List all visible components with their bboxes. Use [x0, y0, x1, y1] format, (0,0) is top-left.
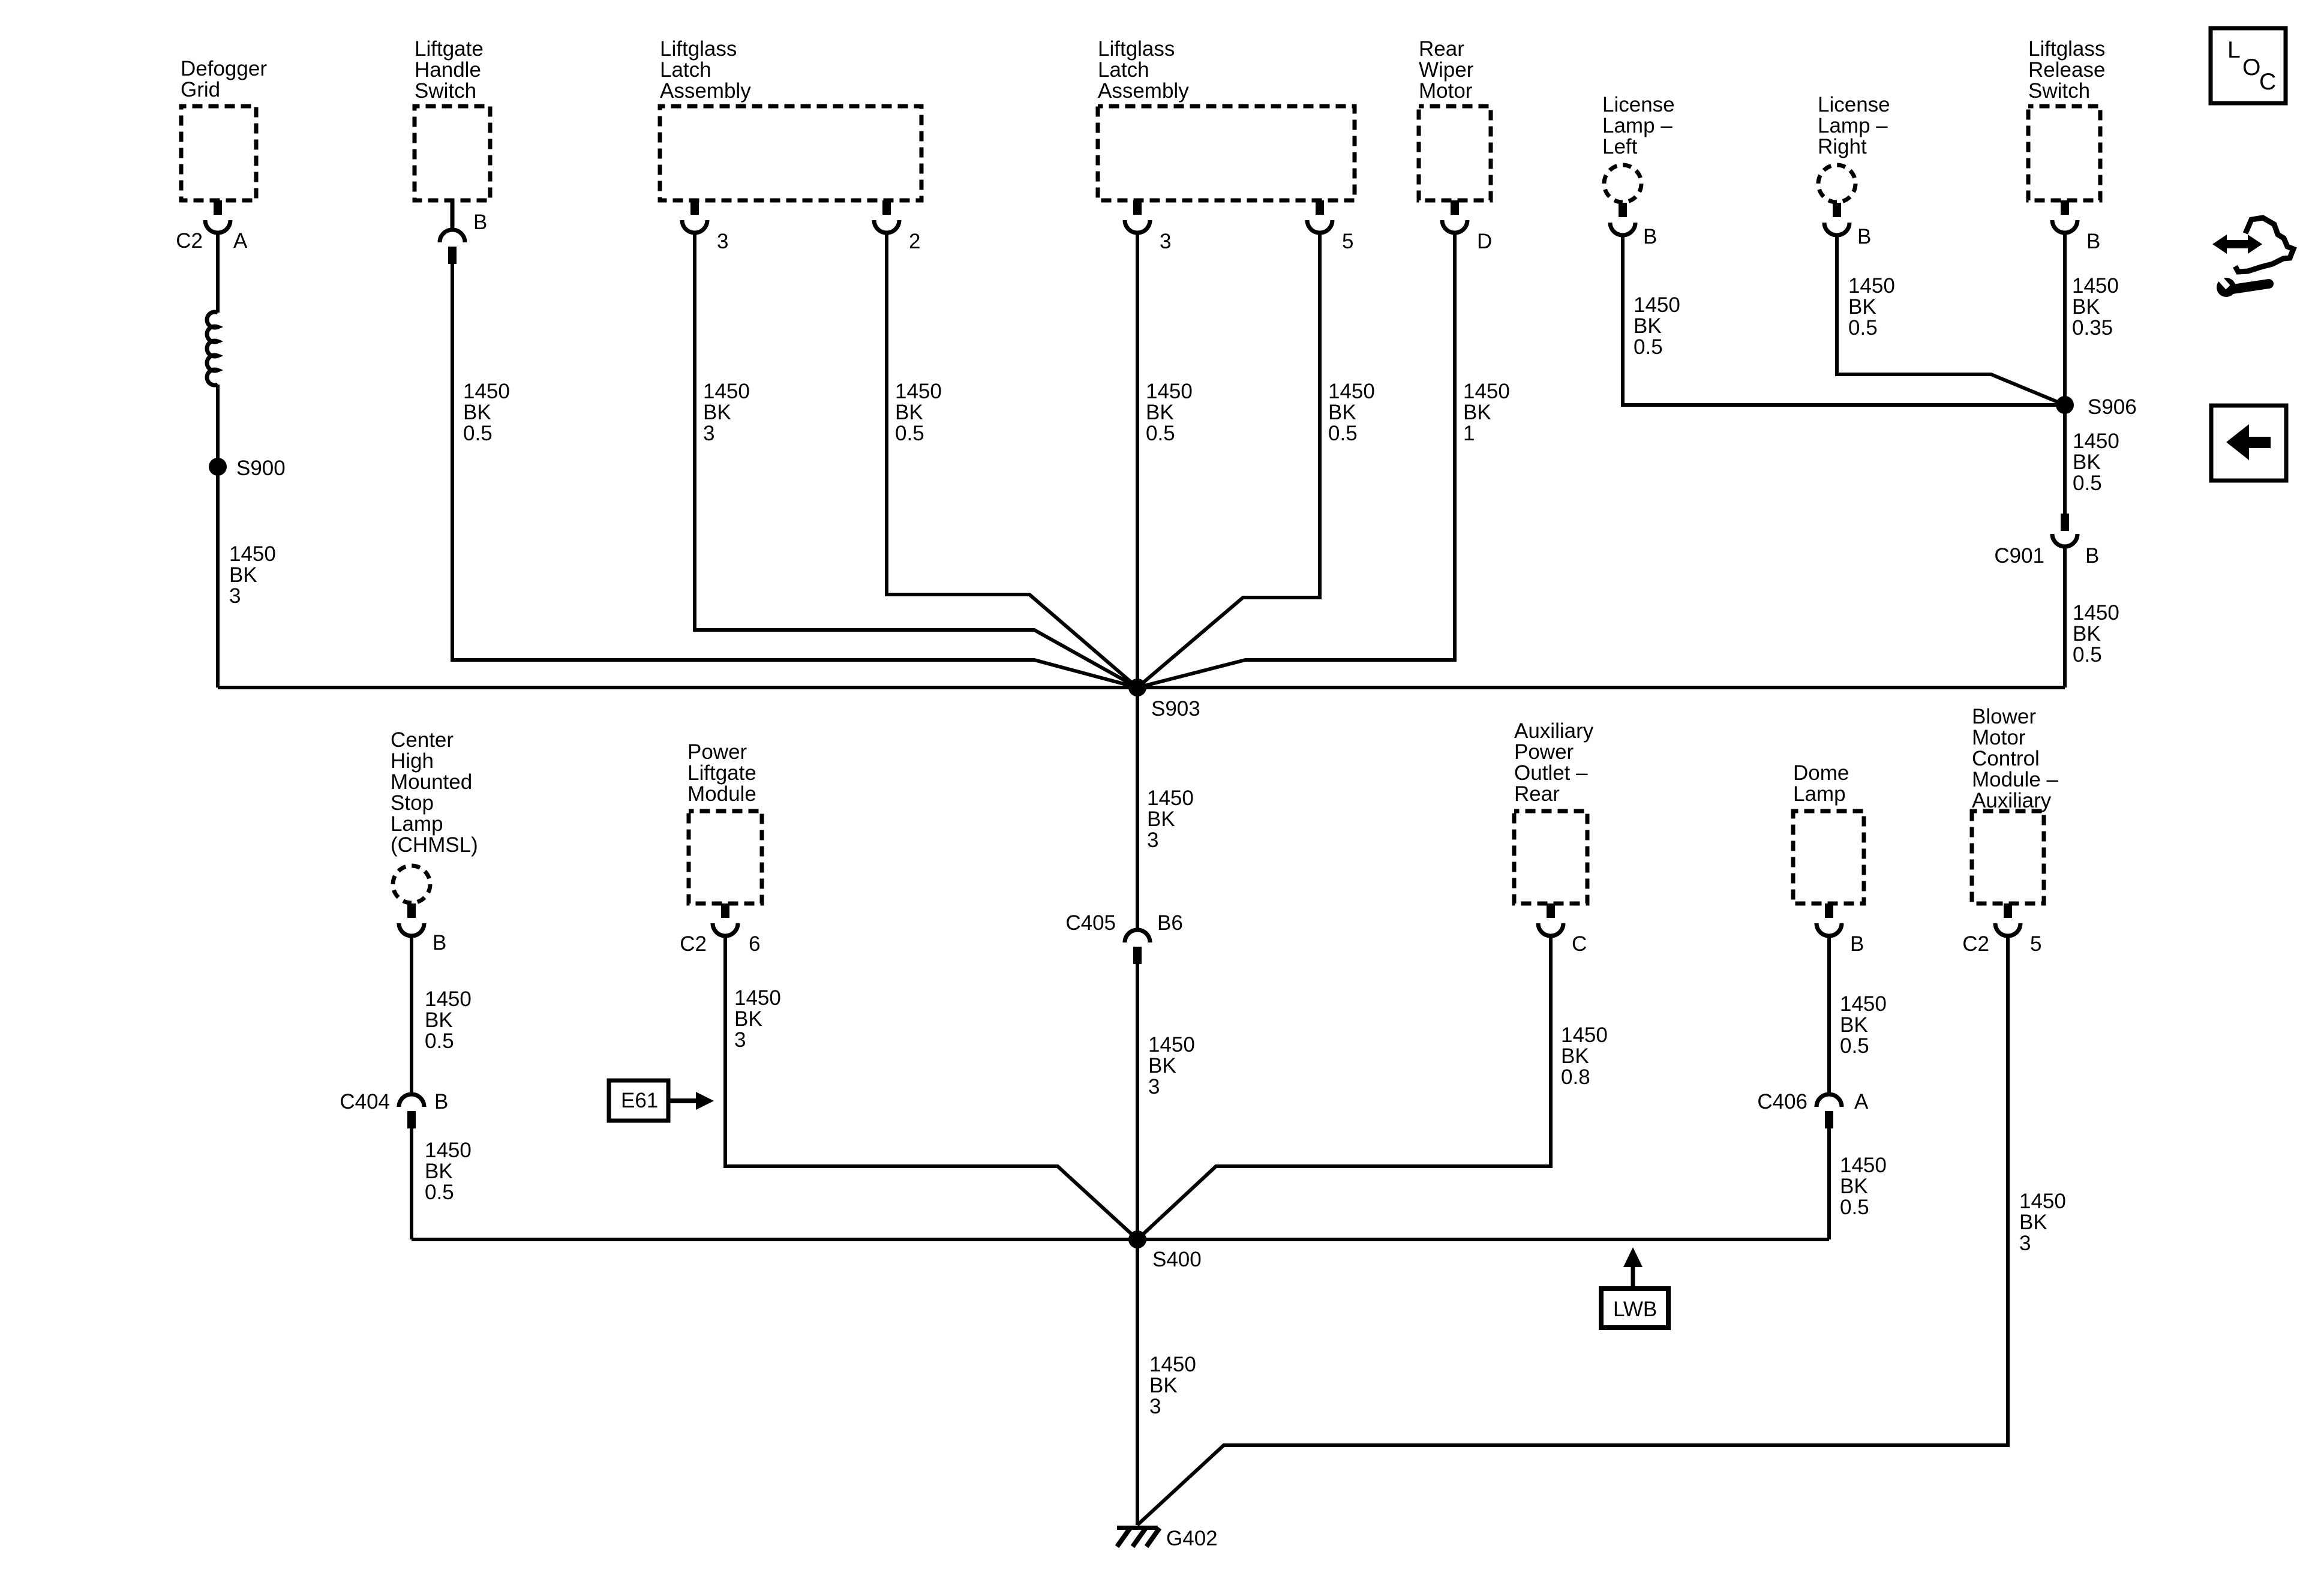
- svg-text:B: B: [1850, 932, 1864, 956]
- svg-text:C406: C406: [1757, 1090, 1807, 1113]
- svg-text:B: B: [2086, 230, 2100, 253]
- wire: latch left pin 3 to S903: [695, 233, 1137, 688]
- dashed circle: License Lamp - Right: [1818, 165, 1855, 202]
- wire: license lamp left to S906: [1623, 235, 2065, 405]
- wire: latch left pin 2 to S903: [887, 233, 1137, 688]
- in-line connector C406 (dome type): [1816, 1094, 1842, 1128]
- connector pin B (License Lamp - Right): [1824, 203, 1849, 235]
- wire: wiper motor to S903: [1137, 233, 1455, 688]
- svg-text:3: 3: [717, 230, 728, 253]
- connector pin B (CHMSL): [399, 903, 424, 936]
- svg-text:B: B: [1857, 225, 1871, 248]
- svg-text:5: 5: [1342, 230, 1353, 253]
- splice S906: [2056, 396, 2074, 414]
- wire: power liftgate module to S400: [725, 936, 1137, 1239]
- wire: C406 down to S400 bus: [1827, 1128, 1831, 1239]
- wire: dome lamp to C406: [1827, 936, 1831, 1094]
- wire: C404 down to S400 bus: [410, 1128, 413, 1239]
- connector C2 pin A (Defogger Grid): [205, 200, 230, 233]
- svg-text:B: B: [1643, 225, 1657, 248]
- svg-text:A: A: [1854, 1090, 1869, 1113]
- svg-text:LiftgateHandleSwitch: LiftgateHandleSwitch: [415, 37, 484, 103]
- dashed box: Blower Motor Control Module - Auxiliary: [1972, 811, 2044, 903]
- svg-text:L: L: [2227, 37, 2241, 63]
- icon box with left arrow (view direction): [2211, 406, 2286, 481]
- wire: S906 down to C901: [2063, 405, 2067, 514]
- wire: release switch to S906: [2063, 233, 2067, 405]
- svg-text:E61: E61: [621, 1089, 658, 1112]
- dashed box: Liftglass Latch Assembly (right): [1098, 106, 1355, 200]
- arrow up from LWB box to bus: [1623, 1247, 1643, 1290]
- svg-text:C: C: [2259, 69, 2276, 95]
- connector pin B (Liftgate Handle Switch, dome type): [440, 200, 465, 264]
- coil element (defogger grid resistive element): [207, 312, 218, 385]
- wire: latch right pin 5 to S903: [1137, 233, 1320, 688]
- splice S400: [1128, 1230, 1146, 1248]
- wire: C901 down to S903 bus: [2063, 547, 2067, 688]
- connector pin B (License Lamp - Left): [1610, 203, 1635, 235]
- wire: aux power outlet to S400: [1137, 936, 1551, 1239]
- dashed box: Rear Wiper Motor: [1419, 106, 1491, 200]
- wire: coil to S903 bus via S900: [216, 385, 220, 688]
- svg-text:D: D: [1477, 230, 1492, 253]
- wire: license lamp right to S906: [1837, 235, 2065, 405]
- svg-text:B: B: [433, 931, 446, 954]
- svg-text:C2: C2: [1962, 932, 1989, 956]
- svg-text:DomeLamp: DomeLamp: [1793, 761, 1849, 806]
- wire: blower motor control module to G402: [1137, 936, 2008, 1525]
- svg-text:C404: C404: [340, 1090, 390, 1113]
- wire: Defogger Grid pin A to coil: [216, 233, 220, 313]
- svg-text:5: 5: [2030, 932, 2041, 956]
- svg-text:2: 2: [909, 230, 920, 253]
- dashed box: Liftglass Latch Assembly (left): [660, 106, 921, 200]
- dashed box: Liftglass Release Switch: [2028, 106, 2100, 200]
- connector C2 pin 5 (Blower Motor Control Module): [1995, 903, 2020, 936]
- svg-text:LWB: LWB: [1613, 1298, 1657, 1321]
- in-line connector C901 (cup type): [2052, 514, 2077, 547]
- dashed box: Defogger Grid: [181, 106, 256, 200]
- splice S900: [209, 458, 227, 476]
- ground symbol G402: [1117, 1526, 1160, 1547]
- in-line connector C404 (dome type): [399, 1094, 424, 1128]
- icon: removal-direction arrow with component outline and wrench: [2212, 218, 2293, 297]
- svg-text:6: 6: [749, 932, 760, 956]
- svg-text:B: B: [2085, 544, 2099, 568]
- svg-text:C405: C405: [1065, 911, 1116, 935]
- svg-text:S400: S400: [1152, 1248, 1202, 1271]
- svg-text:S900: S900: [236, 457, 286, 480]
- svg-text:3: 3: [1160, 230, 1171, 253]
- svg-text:C901: C901: [1994, 544, 2044, 568]
- connector pin 5 (latch assembly right): [1307, 200, 1332, 233]
- wire: S400 down to G402: [1136, 1239, 1139, 1525]
- svg-text:C2: C2: [680, 932, 707, 956]
- svg-text:O: O: [2242, 55, 2260, 80]
- svg-text:C2: C2: [176, 229, 203, 253]
- svg-text:B: B: [434, 1090, 448, 1113]
- svg-text:G402: G402: [1166, 1527, 1218, 1550]
- dashed box: Auxiliary Power Outlet - Rear: [1514, 811, 1587, 903]
- wire: S903 ground bus (horizontal): [218, 686, 2065, 689]
- connector pin D (Rear Wiper Motor): [1442, 200, 1467, 233]
- svg-text:PowerLiftgateModule: PowerLiftgateModule: [687, 740, 756, 806]
- svg-text:S906: S906: [2088, 395, 2137, 419]
- svg-text:S903: S903: [1151, 697, 1200, 721]
- connector pin 3 (latch assembly right): [1125, 200, 1150, 233]
- dashed circle: CHMSL: [393, 866, 430, 903]
- svg-text:B6: B6: [1157, 911, 1183, 935]
- wire: latch right pin 3 down to S903: [1136, 233, 1139, 688]
- dashed box: Dome Lamp: [1793, 811, 1864, 903]
- reference box E61: [609, 1080, 668, 1121]
- splice S903: [1128, 679, 1146, 697]
- wire: C405 down to S400: [1136, 964, 1139, 1239]
- connector pin B (Liftglass Release Switch): [2052, 200, 2077, 233]
- connector pin 2 (latch assembly left): [874, 200, 899, 233]
- dashed box: Power Liftgate Module: [689, 811, 762, 903]
- svg-text:B: B: [473, 211, 487, 234]
- wire: S400 ground bus (horizontal): [412, 1238, 1829, 1241]
- connector C2 pin 6 (Power Liftgate Module): [713, 903, 738, 936]
- in-line connector C405 (dome type): [1125, 930, 1150, 964]
- icon box LOC (page locator): [2211, 28, 2286, 103]
- svg-text:C: C: [1572, 932, 1587, 956]
- connector pin B (Dome Lamp): [1816, 903, 1842, 936]
- arrow from E61 to wire: [668, 1092, 714, 1110]
- connector pin C (Auxiliary Power Outlet - Rear): [1538, 903, 1563, 936]
- svg-text:A: A: [233, 229, 248, 253]
- dashed box: Liftgate Handle Switch: [415, 106, 490, 200]
- dashed circle: License Lamp - Left: [1604, 165, 1641, 202]
- reference box LWB: [1601, 1289, 1668, 1328]
- wire: S903 down to C405: [1136, 688, 1139, 930]
- wire: CHMSL to C404: [410, 936, 413, 1094]
- wire: handle switch to S903: [452, 264, 1137, 688]
- connector pin 3 (latch assembly left): [682, 200, 707, 233]
